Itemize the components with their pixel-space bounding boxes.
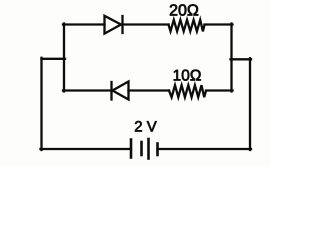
wire: outer left vertical xyxy=(40,58,42,150)
resistor R1 20 ohm (top branch) xyxy=(169,20,205,31)
wire: top branch middle segment xyxy=(123,23,169,25)
resistor R2 10 ohm (middle branch) xyxy=(169,85,206,97)
diode D2 (middle branch, pointing left) xyxy=(112,82,129,100)
wire: inner right vertical (junction of diode branches) xyxy=(230,24,232,92)
wire: top branch left segment xyxy=(63,23,105,25)
label: 10 ohm value (text "10&#937;") xyxy=(174,70,201,81)
wire: bottom right segment xyxy=(158,148,252,150)
wire: left connector stub xyxy=(42,58,66,60)
wire: middle branch left segment xyxy=(63,89,111,91)
wire: right connector stub xyxy=(231,58,252,60)
wire: middle branch middle segment xyxy=(129,89,170,91)
wire: outer right vertical xyxy=(249,58,251,150)
label: 2 V battery value (text "2 V") xyxy=(135,121,157,131)
wire: inner left vertical (junction of diode branches) xyxy=(63,24,65,92)
label: 20 ohm value (text "20&#937;") xyxy=(170,4,198,15)
wire: bottom left segment xyxy=(41,148,132,150)
wire: middle branch right segment xyxy=(206,89,233,91)
battery B1 (2 V cell group) xyxy=(131,139,158,159)
diode D1 (top branch, pointing right) xyxy=(105,16,123,34)
wire: top branch right segment xyxy=(205,23,233,25)
